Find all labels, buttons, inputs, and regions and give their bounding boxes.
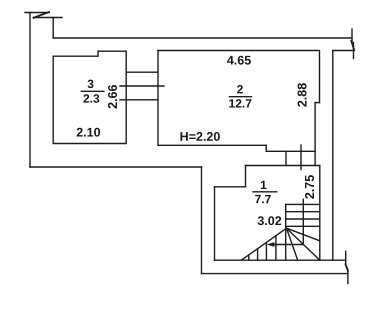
room 1 top wall — [246, 165, 320, 167]
room 2 bottom wall — [158, 144, 266, 146]
room 2 top wall right segment — [333, 50, 354, 52]
winder tread ray 3 — [287, 228, 320, 241]
svg-text:H=2.20: H=2.20 — [180, 130, 221, 144]
svg-text:1: 1 — [260, 178, 267, 192]
stair tread 1 — [286, 203, 320, 205]
lower flight tread a — [248, 255, 250, 260]
walking line horizontal with arrow — [270, 244, 303, 246]
wall jog — [315, 102, 319, 104]
svg-text:7.7: 7.7 — [255, 192, 272, 206]
svg-text:2.66: 2.66 — [106, 84, 120, 108]
winder tread ray 1 — [287, 228, 298, 260]
svg-text:4.65: 4.65 — [227, 53, 251, 67]
outer bottom wall — [202, 273, 348, 275]
wall cut tick bottom-right inner — [345, 251, 347, 264]
stair tread 2 — [286, 211, 320, 213]
right outer wall — [332, 51, 334, 261]
step down at x 265 — [265, 145, 267, 151]
lower wall segment to right — [266, 150, 315, 152]
wall cut tick bottom-right outer — [347, 271, 349, 284]
stair tread 3 — [286, 218, 320, 220]
svg-text:2.3: 2.3 — [83, 92, 100, 106]
room 2 left wall — [157, 51, 159, 146]
outer left wall — [29, 13, 31, 168]
room 2 fraction bar — [229, 96, 252, 98]
svg-text:12.7: 12.7 — [229, 96, 253, 110]
inner vertical wall stub top-left — [52, 18, 54, 39]
stairwell right wall — [319, 166, 321, 261]
room 2 right inner wall lower — [314, 103, 316, 166]
wall break symbol diagonal — [34, 12, 50, 18]
wall break symbol lower line — [34, 17, 63, 19]
lower flight tread d — [275, 236, 277, 261]
svg-text:2.88: 2.88 — [295, 83, 309, 107]
wall cut diagonal bottom-right — [346, 264, 349, 270]
wall cut tick top-right outer — [351, 29, 353, 42]
stair section break diagonal — [241, 228, 286, 260]
wall break symbol top-left upper line — [25, 12, 49, 14]
lower flight tread b — [257, 249, 259, 261]
lower flight tread c — [265, 242, 267, 260]
room 2 right inner wall upper — [319, 51, 321, 103]
svg-text:3.02: 3.02 — [257, 214, 281, 228]
svg-text:2: 2 — [237, 82, 244, 96]
window line lower between room 3 and room 2 — [120, 99, 158, 101]
room 1 fraction bar — [252, 191, 277, 193]
stair tread 4 — [286, 225, 320, 227]
winder tread ray 2 — [287, 228, 320, 260]
walking line vertical — [302, 199, 304, 244]
svg-text:3: 3 — [87, 77, 94, 91]
inner bottom wall — [215, 259, 346, 261]
window line upper between room 3 and room 2 — [126, 71, 158, 73]
dimension tick at x 301 — [300, 145, 302, 170]
connector jamb at x 286 — [285, 151, 287, 165]
bottom-left outer wall — [30, 166, 202, 168]
dimension line 2.66 — [120, 85, 164, 87]
outer step wall vertical — [201, 167, 203, 274]
room 1 step vertical — [245, 166, 247, 187]
room 3 fraction bar — [81, 90, 105, 92]
room 2 top wall left segment — [158, 50, 318, 52]
top outer wall — [53, 37, 352, 39]
svg-text:2.10: 2.10 — [76, 125, 100, 139]
room 1 top wall left segment — [215, 186, 246, 188]
stair direction arrow head — [267, 242, 275, 247]
stairs left edge — [285, 204, 287, 260]
room 3 box outline — [53, 51, 126, 143]
wall cut tick top-right inner — [353, 43, 355, 59]
room 1 left wall — [214, 187, 216, 260]
wall cut diagonal top-right — [351, 41, 354, 50]
svg-text:2.75: 2.75 — [303, 175, 317, 199]
